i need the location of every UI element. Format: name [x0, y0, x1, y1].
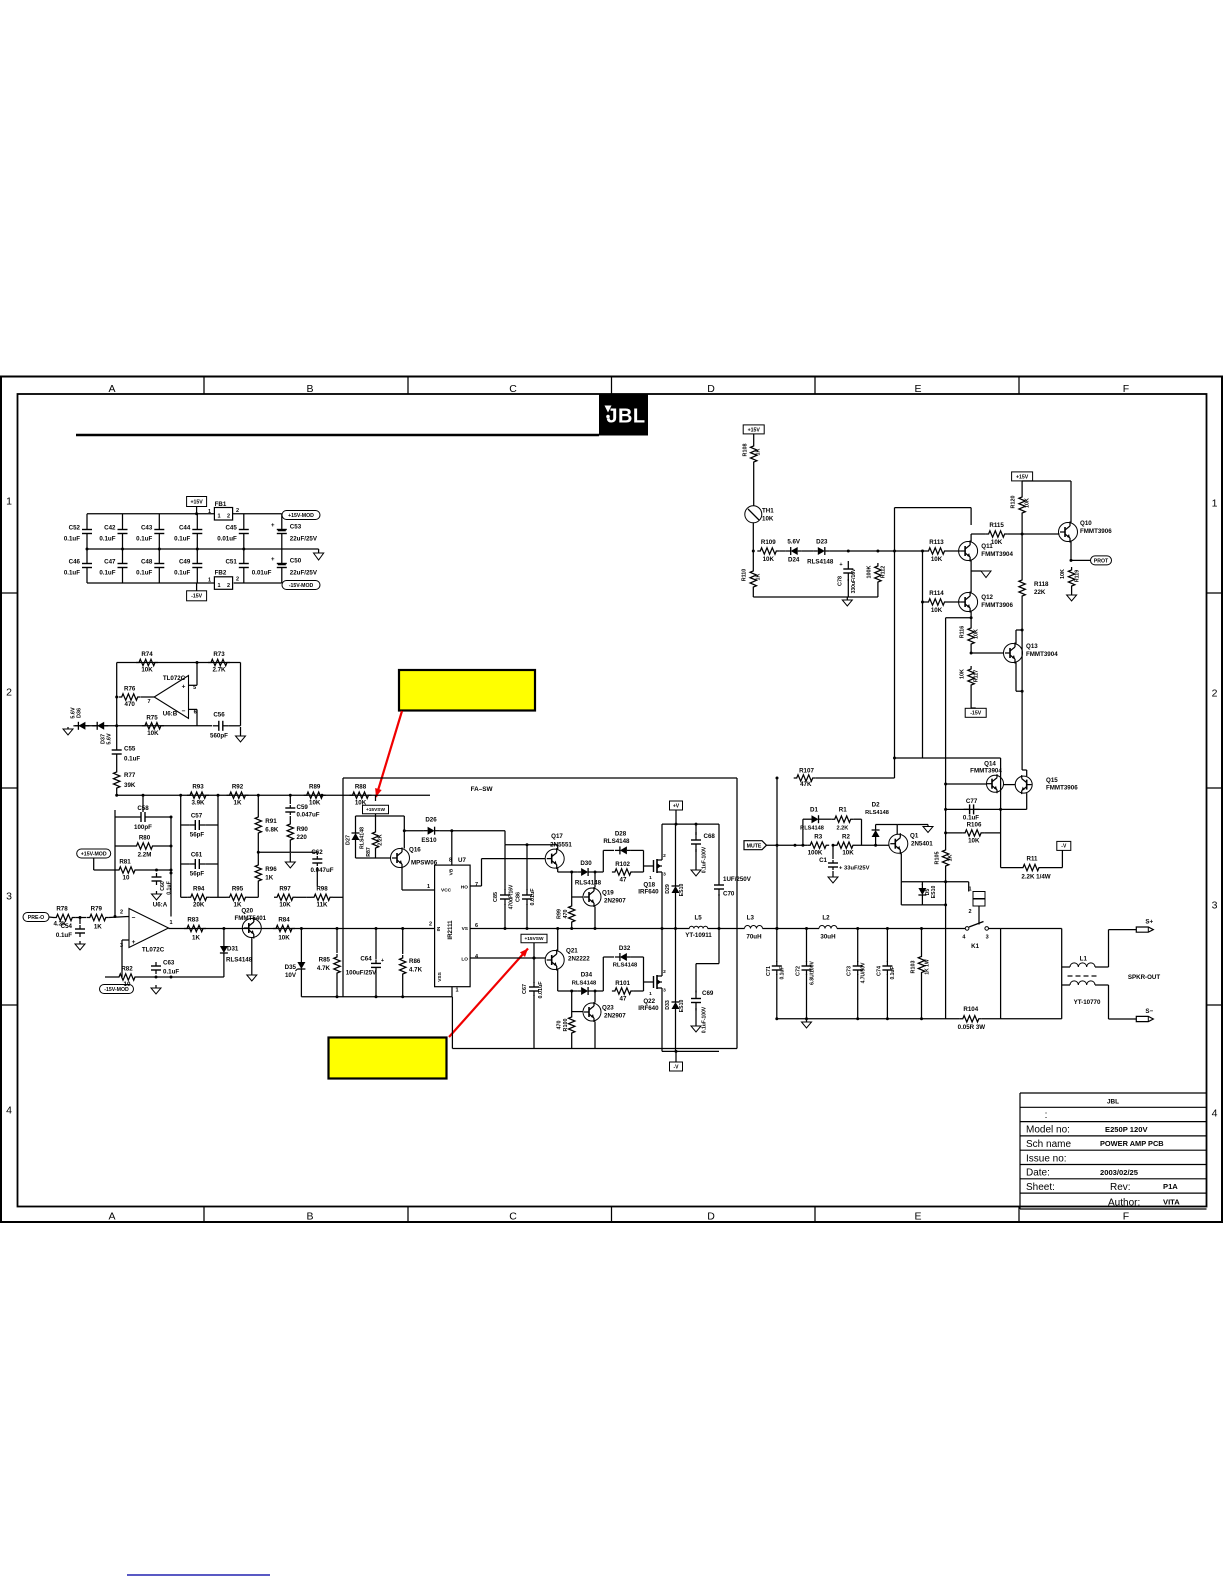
svg-text:2N2907: 2N2907 [604, 898, 626, 905]
svg-text:C68: C68 [704, 833, 716, 840]
svg-text:10K: 10K [141, 667, 153, 674]
svg-text:7: 7 [147, 699, 150, 705]
svg-text:D30: D30 [580, 860, 592, 867]
svg-text:L1: L1 [1080, 956, 1088, 963]
svg-text:4.7K: 4.7K [409, 967, 423, 974]
svg-text:R117: R117 [974, 670, 980, 683]
svg-text:1: 1 [427, 884, 430, 890]
svg-text:2: 2 [429, 922, 432, 928]
svg-text:-V: -V [674, 1064, 680, 1070]
svg-text:Rev:: Rev: [1110, 1182, 1131, 1193]
svg-text:E: E [914, 1211, 921, 1223]
svg-text:1: 1 [217, 514, 220, 520]
svg-text:RLS4148: RLS4148 [603, 838, 630, 845]
svg-text:R118: R118 [1034, 581, 1049, 588]
svg-text:A: A [108, 383, 115, 395]
svg-text:100K: 100K [808, 850, 823, 857]
svg-text:C56: C56 [213, 712, 225, 719]
svg-text:10K: 10K [991, 539, 1003, 546]
svg-text:C71: C71 [766, 966, 772, 976]
svg-text:1K: 1K [192, 935, 200, 942]
svg-text:D35: D35 [285, 964, 297, 971]
svg-text:1UF/250V: 1UF/250V [723, 876, 752, 883]
svg-text:10K: 10K [147, 730, 159, 737]
svg-text:R101: R101 [615, 980, 630, 987]
svg-text:FMMT3904: FMMT3904 [970, 768, 1002, 775]
svg-text:1: 1 [6, 496, 12, 508]
svg-text:0.1uF: 0.1uF [890, 966, 896, 979]
svg-text:0.1uF: 0.1uF [166, 881, 172, 895]
svg-text:47: 47 [620, 877, 627, 884]
svg-text:R94: R94 [193, 886, 205, 893]
svg-text:R76: R76 [124, 686, 136, 693]
svg-text:Author:: Author: [1108, 1197, 1140, 1208]
svg-text:30uH: 30uH [820, 933, 836, 940]
svg-text:Q19: Q19 [602, 890, 614, 897]
svg-text:D23: D23 [816, 539, 828, 546]
svg-text:4.7U/50V: 4.7U/50V [861, 962, 867, 984]
svg-text:YT-10911: YT-10911 [685, 932, 712, 939]
svg-text:RLS4148: RLS4148 [800, 826, 824, 832]
svg-text:B: B [306, 383, 313, 395]
svg-text:C85: C85 [493, 892, 499, 902]
svg-text:-15V: -15V [970, 711, 981, 717]
svg-text:B: B [306, 1211, 313, 1223]
svg-text:4: 4 [1212, 1108, 1218, 1120]
svg-text:R96: R96 [265, 866, 277, 873]
svg-text:C42: C42 [104, 525, 116, 532]
svg-text:2: 2 [663, 853, 666, 859]
svg-text:FB1: FB1 [215, 501, 227, 508]
svg-text:RLS4148: RLS4148 [572, 981, 597, 987]
svg-text:ES10: ES10 [679, 1000, 685, 1013]
svg-text:C55: C55 [124, 746, 136, 753]
svg-text:C86: C86 [516, 892, 522, 902]
svg-text:C46: C46 [69, 559, 81, 566]
svg-text:P1A: P1A [1163, 1182, 1178, 1191]
svg-text:MPSW06: MPSW06 [411, 860, 438, 867]
svg-text:R89: R89 [309, 784, 321, 791]
svg-text:PROT: PROT [1094, 558, 1109, 564]
svg-text:C78: C78 [838, 576, 844, 586]
svg-text:+: + [132, 939, 136, 946]
svg-text:JBL: JBL [606, 406, 645, 428]
svg-text:2.7K: 2.7K [212, 667, 226, 674]
svg-text:Q10: Q10 [1080, 520, 1092, 527]
svg-text:Q23: Q23 [602, 1005, 614, 1012]
svg-text:+: + [839, 562, 842, 568]
svg-text:0.1uF: 0.1uF [963, 815, 979, 822]
svg-text:PRE-O: PRE-O [28, 915, 44, 921]
svg-text:0.1uF: 0.1uF [174, 536, 190, 543]
svg-text:R84: R84 [278, 917, 290, 924]
svg-text:2N5401: 2N5401 [911, 841, 933, 848]
svg-text:3: 3 [663, 872, 666, 878]
svg-text:10K: 10K [279, 902, 291, 909]
svg-text:RLS4148: RLS4148 [575, 880, 602, 887]
svg-text:F: F [1123, 1211, 1129, 1223]
svg-text:ES10: ES10 [421, 837, 437, 844]
svg-text:0.1uF-100V: 0.1uF-100V [702, 846, 708, 873]
svg-text:FMMT3906: FMMT3906 [1046, 785, 1078, 792]
svg-text:FMMT5401: FMMT5401 [234, 915, 266, 922]
svg-text:1: 1 [208, 509, 211, 515]
svg-text:2N5551: 2N5551 [550, 842, 572, 849]
svg-text:1K: 1K [265, 875, 273, 882]
svg-text:TH1: TH1 [762, 508, 774, 515]
svg-text:IN: IN [436, 926, 442, 931]
svg-text:C60: C60 [160, 881, 166, 891]
svg-text:Issue no:: Issue no: [1026, 1153, 1067, 1164]
svg-text:C63: C63 [163, 960, 175, 967]
svg-text:D33: D33 [665, 1000, 671, 1010]
svg-text:10K: 10K [1025, 498, 1031, 508]
svg-text:C1: C1 [819, 857, 827, 864]
svg-text:IRF640: IRF640 [638, 889, 659, 896]
svg-text:VSS: VSS [437, 971, 443, 981]
svg-text:470: 470 [125, 701, 136, 708]
svg-text:FB2: FB2 [215, 570, 227, 577]
svg-text::: : [1045, 1110, 1048, 1121]
svg-text:C61: C61 [191, 852, 203, 859]
svg-text:2: 2 [663, 969, 666, 975]
svg-text:R79: R79 [91, 906, 103, 913]
svg-text:C48: C48 [141, 559, 153, 566]
svg-text:0.05R 3W: 0.05R 3W [958, 1024, 986, 1031]
svg-text:R114: R114 [929, 590, 944, 597]
svg-text:220: 220 [297, 834, 308, 841]
svg-text:0.047uF: 0.047uF [297, 812, 320, 819]
svg-text:39K: 39K [124, 782, 136, 789]
svg-text:R112: R112 [881, 566, 887, 579]
svg-text:+15V-MOD: +15V-MOD [81, 851, 107, 857]
svg-text:R105: R105 [934, 852, 940, 865]
svg-text:C: C [509, 383, 517, 395]
svg-text:+: + [271, 557, 275, 563]
svg-text:C47: C47 [104, 559, 116, 566]
svg-text:R81: R81 [119, 859, 131, 866]
svg-text:6.8U/100V: 6.8U/100V [809, 961, 815, 985]
svg-text:C54: C54 [61, 923, 73, 930]
svg-text:E: E [914, 383, 921, 395]
svg-text:C52: C52 [69, 525, 81, 532]
svg-text:-15V: -15V [191, 594, 202, 600]
svg-text:JBL: JBL [1107, 1099, 1119, 1106]
svg-text:1: 1 [968, 887, 971, 893]
svg-text:Q13: Q13 [1026, 643, 1038, 650]
svg-text:2.2K: 2.2K [836, 826, 848, 832]
svg-text:C: C [509, 1211, 517, 1223]
svg-text:0.1uF: 0.1uF [163, 969, 179, 976]
svg-text:R85: R85 [319, 957, 331, 964]
svg-text:D29: D29 [665, 884, 671, 894]
svg-text:0.01uF: 0.01uF [217, 536, 237, 543]
svg-text:3.9K: 3.9K [191, 800, 205, 807]
svg-text:R1: R1 [839, 807, 847, 814]
svg-text:D26: D26 [425, 817, 437, 824]
svg-text:+V: +V [673, 803, 680, 809]
svg-text:R78: R78 [56, 906, 68, 913]
svg-text:E250P 120V: E250P 120V [1105, 1125, 1148, 1134]
svg-text:D27: D27 [346, 835, 352, 845]
svg-text:C49: C49 [179, 559, 191, 566]
svg-text:D34: D34 [581, 972, 593, 979]
svg-text:-V: -V [1061, 844, 1067, 850]
svg-text:R115: R115 [989, 522, 1004, 529]
svg-text:2: 2 [120, 910, 123, 916]
svg-text:RLS4148: RLS4148 [226, 957, 253, 964]
svg-text:100pF: 100pF [134, 824, 152, 831]
svg-text:10K: 10K [931, 607, 943, 614]
svg-text:−: − [182, 708, 186, 715]
svg-text:HO: HO [461, 885, 468, 891]
svg-text:L5: L5 [694, 915, 702, 922]
svg-text:70uH: 70uH [746, 933, 762, 940]
svg-text:Q17: Q17 [551, 833, 563, 840]
svg-text:1K: 1K [756, 573, 762, 580]
svg-text:D32: D32 [619, 945, 631, 952]
svg-text:R2: R2 [842, 834, 850, 841]
svg-text:1K: 1K [756, 448, 762, 455]
svg-text:FA–SW: FA–SW [471, 786, 494, 793]
svg-text:0.1uF: 0.1uF [99, 536, 115, 543]
svg-text:C43: C43 [141, 525, 153, 532]
svg-text:R108: R108 [743, 444, 749, 457]
svg-text:R98: R98 [316, 886, 328, 893]
svg-text:+: + [271, 523, 275, 529]
svg-text:0.047uF: 0.047uF [310, 867, 333, 874]
svg-text:100uF/25V: 100uF/25V [346, 970, 377, 977]
svg-text:3: 3 [6, 891, 12, 903]
svg-text:MUTE: MUTE [747, 843, 762, 849]
svg-text:R97: R97 [279, 886, 291, 893]
svg-text:D: D [707, 1211, 715, 1223]
svg-text:+15V: +15V [1016, 474, 1029, 480]
svg-text:11K: 11K [316, 902, 328, 909]
svg-text:R106: R106 [967, 822, 982, 829]
svg-text:2.2K: 2.2K [378, 834, 384, 845]
svg-text:IR2111: IR2111 [447, 920, 454, 940]
svg-text:Q16: Q16 [409, 847, 421, 854]
svg-text:1: 1 [169, 920, 172, 926]
svg-text:SPKR-OUT: SPKR-OUT [1128, 974, 1161, 981]
svg-text:R103: R103 [910, 961, 916, 974]
svg-text:560pF: 560pF [210, 733, 228, 740]
svg-text:4: 4 [6, 1105, 12, 1117]
svg-text:R119: R119 [1075, 570, 1081, 583]
svg-text:U6:B: U6:B [163, 711, 178, 718]
svg-text:20K: 20K [193, 902, 205, 909]
svg-text:R110: R110 [742, 569, 748, 582]
svg-text:R86: R86 [409, 958, 421, 965]
svg-text:C53: C53 [290, 524, 302, 531]
svg-text:R77: R77 [124, 772, 136, 779]
svg-text:C69: C69 [702, 990, 714, 997]
svg-text:TL072C: TL072C [142, 947, 165, 954]
svg-text:R87: R87 [366, 847, 372, 857]
svg-text:0.01uF: 0.01uF [530, 888, 536, 906]
svg-text:330uF/16V: 330uF/16V [851, 568, 857, 593]
svg-text:Q20: Q20 [241, 908, 253, 915]
svg-text:C58: C58 [137, 805, 149, 812]
svg-text:C72: C72 [796, 966, 802, 976]
svg-text:1: 1 [455, 988, 458, 994]
svg-text:D1: D1 [810, 807, 818, 814]
svg-text:Q21: Q21 [566, 948, 578, 955]
svg-text:F: F [1123, 383, 1129, 395]
svg-text:R74: R74 [141, 651, 153, 658]
svg-text:D36: D36 [77, 708, 83, 718]
svg-text:10K: 10K [763, 556, 775, 563]
svg-text:VCC: VCC [441, 888, 452, 894]
svg-text:Sheet:: Sheet: [1026, 1182, 1055, 1193]
svg-text:0.1uF: 0.1uF [64, 570, 80, 577]
svg-text:C50: C50 [290, 558, 302, 565]
svg-text:1: 1 [1212, 498, 1218, 510]
svg-text:22K: 22K [1034, 589, 1046, 596]
svg-text:R80: R80 [139, 835, 151, 842]
svg-text:R102: R102 [615, 861, 630, 868]
svg-text:R3: R3 [814, 834, 822, 841]
svg-text:+: + [381, 958, 384, 964]
svg-text:LO: LO [461, 957, 468, 963]
svg-text:C70: C70 [723, 891, 735, 898]
svg-text:D24: D24 [788, 557, 800, 564]
svg-text:R82: R82 [121, 966, 133, 973]
svg-text:RLS4148: RLS4148 [865, 810, 889, 816]
svg-text:R83: R83 [187, 917, 199, 924]
svg-text:2: 2 [236, 508, 239, 514]
svg-text:FMMT3904: FMMT3904 [981, 551, 1013, 558]
svg-text:VITA: VITA [1163, 1198, 1180, 1207]
svg-text:1K: 1K [948, 854, 954, 861]
svg-text:470uF/16V: 470uF/16V [509, 884, 515, 909]
svg-text:R107: R107 [799, 768, 814, 775]
svg-text:2.2M: 2.2M [138, 852, 152, 859]
svg-text:R109: R109 [761, 539, 776, 546]
svg-text:0.1uF: 0.1uF [56, 932, 72, 939]
svg-text:2: 2 [968, 909, 971, 915]
svg-text:C59: C59 [297, 804, 309, 811]
svg-text:10K: 10K [278, 935, 290, 942]
svg-text:2: 2 [236, 577, 239, 583]
svg-text:FMMT3904: FMMT3904 [1026, 651, 1058, 658]
svg-text:8: 8 [449, 858, 452, 864]
svg-text:0.1uF: 0.1uF [99, 570, 115, 577]
svg-text:10K: 10K [309, 800, 321, 807]
svg-text:2.2K 1/4W: 2.2K 1/4W [1021, 874, 1050, 881]
svg-text:C77: C77 [966, 798, 978, 805]
svg-text:10V: 10V [285, 972, 297, 979]
svg-text:22uF/25V: 22uF/25V [290, 570, 318, 577]
svg-text:D: D [707, 383, 715, 395]
svg-text:10K: 10K [842, 850, 854, 857]
svg-text:Q14: Q14 [984, 761, 996, 768]
svg-text:R93: R93 [192, 784, 204, 791]
svg-text:+: + [182, 684, 186, 691]
svg-text:47K: 47K [800, 781, 812, 788]
svg-text:R91: R91 [265, 818, 277, 825]
svg-text:+15V: +15V [190, 499, 203, 505]
svg-text:S+: S+ [1145, 919, 1153, 926]
svg-text:R75: R75 [146, 715, 158, 722]
svg-text:R73: R73 [213, 651, 225, 658]
svg-text:+15VSW: +15VSW [366, 807, 386, 813]
svg-text:Q12: Q12 [981, 594, 993, 601]
svg-text:C62: C62 [311, 849, 323, 856]
svg-text:R120: R120 [1011, 496, 1017, 509]
svg-text:4.7K: 4.7K [317, 965, 331, 972]
svg-text:6.8K: 6.8K [265, 827, 279, 834]
svg-text:IRF640: IRF640 [638, 1005, 659, 1012]
svg-text:10K: 10K [1060, 569, 1066, 579]
svg-text:0.1uF: 0.1uF [136, 570, 152, 577]
svg-text:D2: D2 [872, 802, 880, 809]
svg-text:ES10: ES10 [931, 886, 937, 899]
svg-text:C57: C57 [191, 813, 203, 820]
svg-text:Model no:: Model no: [1026, 1125, 1070, 1136]
svg-text:5.6V: 5.6V [106, 733, 112, 745]
svg-text:Date:: Date: [1026, 1168, 1050, 1179]
svg-text:VB: VB [449, 868, 455, 875]
svg-text:C73: C73 [847, 966, 853, 976]
svg-text:TL072C: TL072C [163, 675, 186, 682]
svg-text:56pF: 56pF [190, 871, 205, 878]
svg-text:0.1uF: 0.1uF [136, 536, 152, 543]
svg-text:10K: 10K [762, 516, 774, 523]
svg-text:2: 2 [227, 583, 230, 589]
svg-text:RLS4148: RLS4148 [360, 827, 366, 849]
svg-text:R88: R88 [355, 784, 367, 791]
svg-text:R92: R92 [232, 784, 244, 791]
svg-text:5.6V: 5.6V [787, 539, 801, 546]
svg-text:22uF/25V: 22uF/25V [290, 536, 318, 543]
svg-text:1: 1 [649, 875, 652, 881]
svg-text:2: 2 [6, 687, 12, 699]
svg-text:R113: R113 [929, 539, 944, 546]
svg-text:10K: 10K [931, 556, 943, 563]
svg-text:POWER AMP PCB: POWER AMP PCB [1100, 1139, 1164, 1148]
svg-text:1K: 1K [94, 924, 102, 931]
svg-text:C44: C44 [179, 525, 191, 532]
svg-text:-15V-MOD: -15V-MOD [289, 583, 314, 589]
svg-text:0.1uF: 0.1uF [174, 570, 190, 577]
svg-text:Q15: Q15 [1046, 777, 1058, 784]
svg-text:C67: C67 [522, 984, 528, 994]
svg-text:6: 6 [194, 710, 197, 716]
svg-text:Q22: Q22 [643, 998, 655, 1005]
svg-text:C45: C45 [225, 525, 237, 532]
svg-text:3: 3 [986, 935, 989, 941]
svg-text:Sch name: Sch name [1026, 1139, 1071, 1150]
svg-text:FMMT3906: FMMT3906 [1080, 528, 1112, 535]
svg-text:R90: R90 [297, 826, 309, 833]
svg-text:R100: R100 [563, 1019, 569, 1032]
svg-text:1: 1 [649, 991, 652, 997]
svg-text:+ 33uF/25V: + 33uF/25V [839, 866, 870, 872]
svg-text:1K 1W: 1K 1W [924, 959, 930, 975]
svg-text:L2: L2 [822, 915, 830, 922]
svg-text:A: A [108, 1211, 115, 1223]
svg-text:+15V-MOD: +15V-MOD [288, 513, 314, 519]
svg-text:D31: D31 [227, 946, 239, 953]
svg-text:2N2222: 2N2222 [568, 956, 590, 963]
svg-text:R116: R116 [960, 626, 966, 639]
svg-text:R95: R95 [232, 886, 244, 893]
svg-text:−: − [132, 915, 136, 922]
svg-text:1K: 1K [234, 800, 242, 807]
svg-text:L3: L3 [747, 915, 755, 922]
